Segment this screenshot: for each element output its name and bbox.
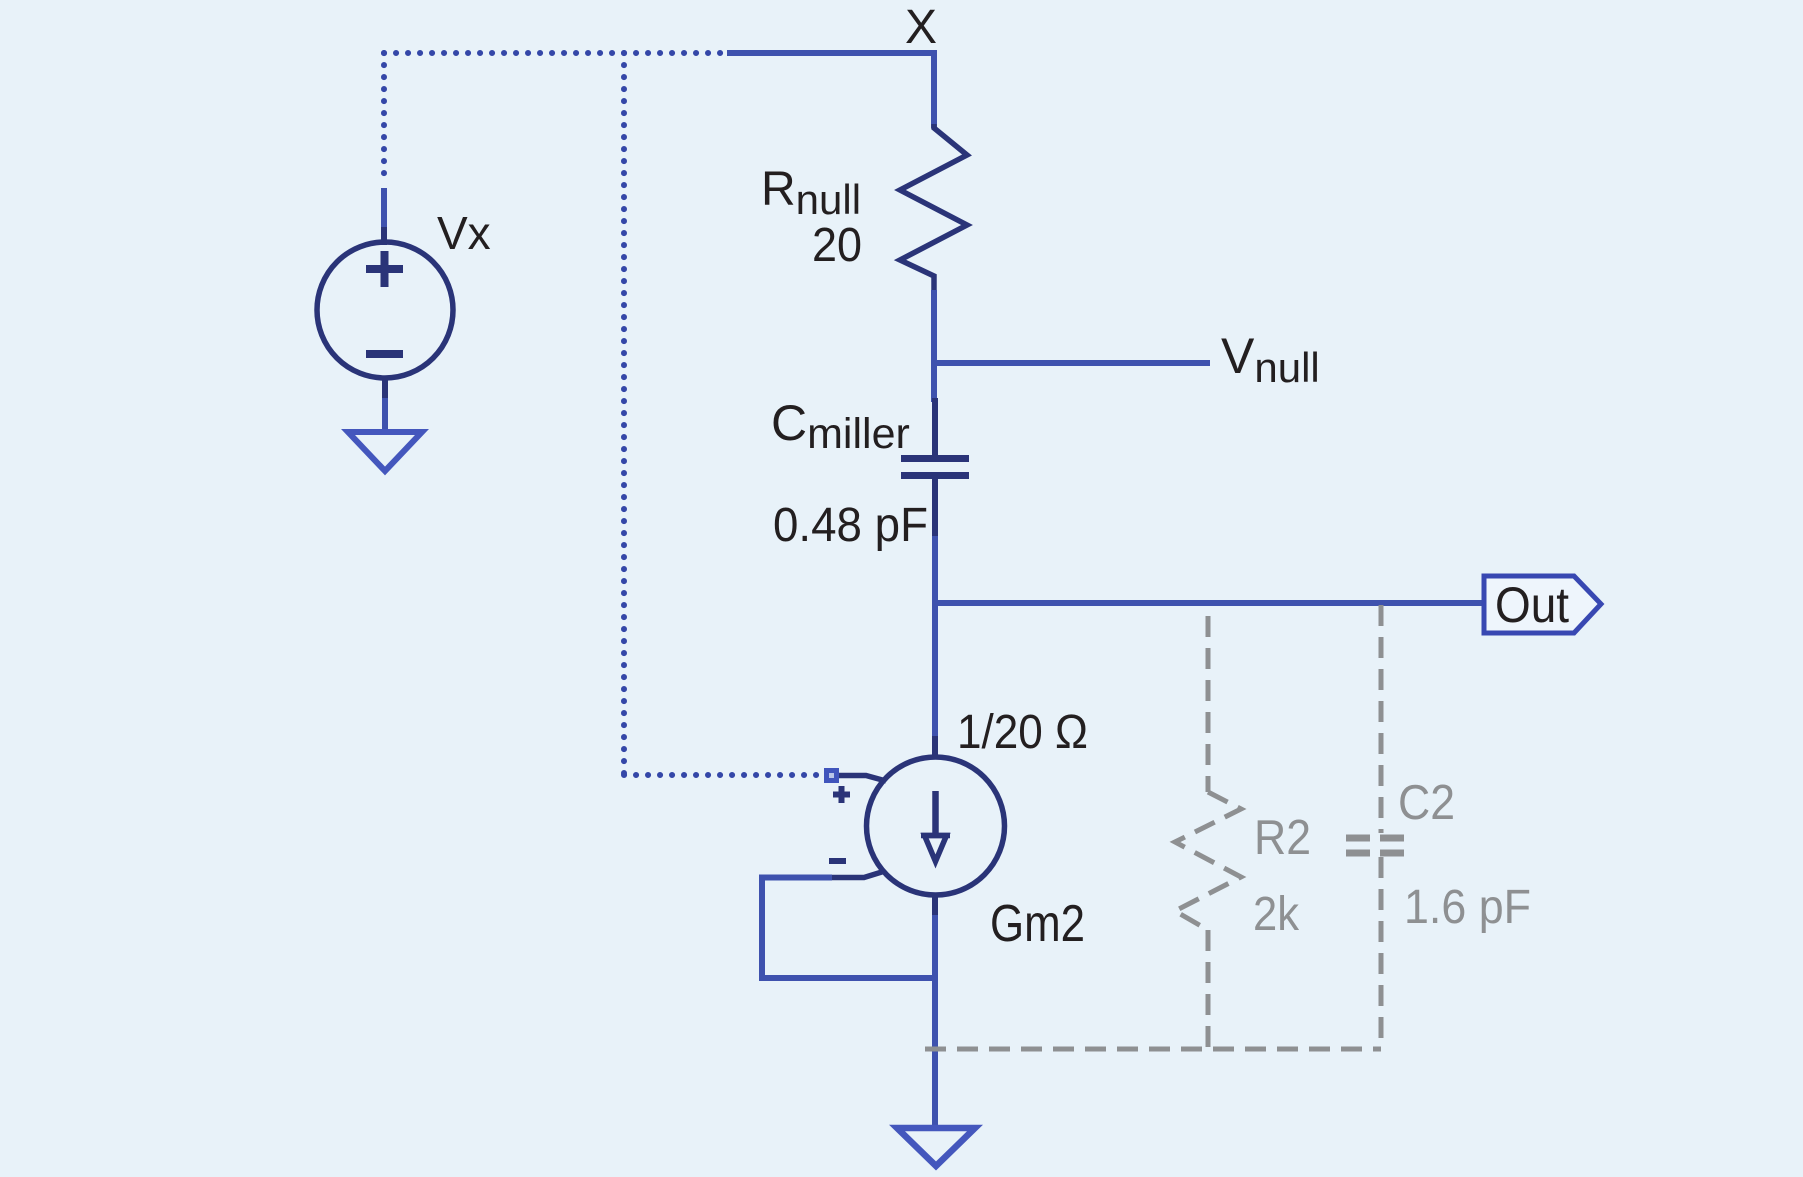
current source Gm2 [867, 736, 1005, 917]
svg-text:C2: C2 [1398, 776, 1455, 830]
svg-text:20: 20 [812, 219, 862, 272]
wire node X to Rnull top [727, 53, 934, 128]
svg-text:1.6 pF: 1.6 pF [1404, 881, 1531, 934]
wire dotted horizontal into Gm2 plus input [624, 772, 818, 778]
resistor R2 dashed [1175, 605, 1241, 1049]
wire dotted vertical above Vx [381, 53, 387, 184]
wire feedback loop minus input to Gm2 bottom [762, 878, 935, 979]
wire dotted horizontal from Vx to node X [384, 50, 722, 56]
wire plus input to Gm2 [839, 776, 886, 782]
wire Rnull bottom to Vnull junction and Cmiller [931, 290, 937, 402]
svg-text:Vx: Vx [437, 207, 491, 259]
label minus [829, 858, 846, 864]
wire dashed gray bottom return [925, 1047, 1381, 1052]
wire Cmiller bottom to output node [932, 536, 938, 606]
port Out flag [1484, 576, 1601, 633]
voltage source Vx [317, 188, 453, 432]
svg-text:0.48 pF: 0.48 pF [773, 499, 928, 552]
wire dotted vertical to Gm2 plus input [621, 53, 627, 775]
wire Gm2 bottom to ground [932, 915, 938, 1128]
wire minus input from Gm2 [830, 871, 885, 878]
wire output node down to Gm2 [932, 603, 938, 740]
svg-text:2k: 2k [1253, 888, 1300, 941]
label plus [833, 786, 850, 803]
capacitor C2 dashed [1346, 605, 1413, 1049]
svg-text:Gm2: Gm2 [990, 895, 1085, 953]
wire junction to net Vnull [934, 360, 1210, 366]
svg-text:Out: Out [1495, 577, 1569, 633]
svg-text:R2: R2 [1254, 811, 1311, 865]
capacitor Cmiller [901, 398, 969, 538]
node square at Gm2 plus input [824, 768, 839, 783]
svg-text:1/20 Ω: 1/20 Ω [957, 706, 1088, 759]
resistor Rnull [900, 124, 967, 292]
ground at Vx [348, 432, 422, 471]
ground at output [897, 1128, 975, 1166]
wire output node to Out port [932, 600, 1484, 606]
svg-text:X: X [905, 1, 937, 54]
